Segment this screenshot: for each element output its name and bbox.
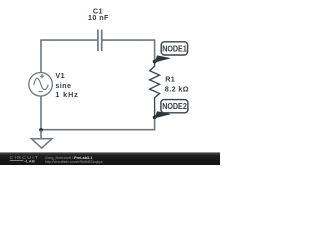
capacitor C1 plates [98,30,102,51]
svg-text:V1: V1 [55,71,65,80]
junction dot NODE1 [153,60,157,64]
wire bottom: ground junction to bottom-right corner up to NODE2 junction [41,117,155,129]
svg-text:R1: R1 [165,74,175,83]
svg-text:▪LAB: ▪LAB [25,159,36,164]
resistor R1 zigzag [150,62,160,118]
wire top-right: from capacitor right plate to right corner down to NODE1 junction [102,40,154,62]
wire top-left: from source top up and right to capacitor left plate [41,40,97,72]
wire left-bottom: from source bottom down to ground junction [40,96,42,130]
svg-text:NODE1: NODE1 [162,43,187,53]
ground symbol triangle [32,139,52,148]
node NODE1 callout tail [154,55,171,62]
junction dot ground [39,128,43,132]
voltage source V1 [29,73,53,97]
svg-text:1 kHz: 1 kHz [55,90,78,99]
svg-text:8.2 kΩ: 8.2 kΩ [165,84,189,93]
svg-text:NODE2: NODE2 [162,101,187,111]
plus sign [40,74,44,78]
junction dot NODE2 [153,116,157,120]
svg-text:10 nF: 10 nF [88,13,109,22]
node NODE2 callout tail [154,111,171,118]
svg-text:http:⁄⁄circuitlab.com⁄c⁄9h8d82: http:⁄⁄circuitlab.com⁄c⁄9h8d82zqkpz [45,160,103,164]
logo LAB underline dashes [10,159,23,162]
minus sign [38,91,42,93]
ground stub wire [40,130,42,139]
watermark bar [0,152,220,165]
node NODE2 callout box [161,100,188,113]
node NODE1 callout box [161,42,187,55]
sine glyph [34,78,48,89]
svg-text:sine: sine [55,81,71,90]
